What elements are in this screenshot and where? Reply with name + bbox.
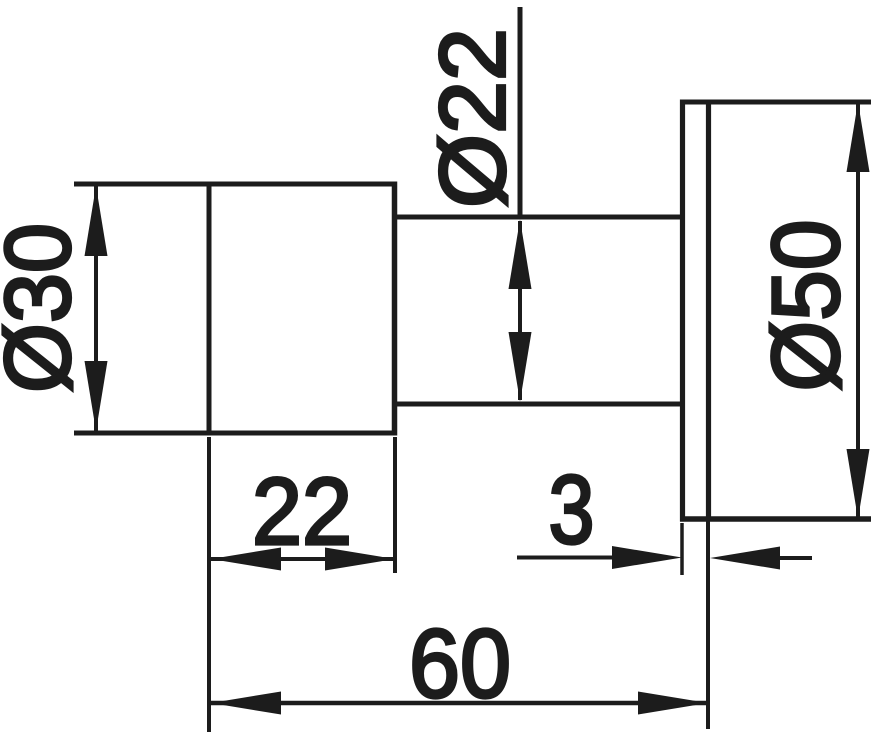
Ø22 dimension line inside neck [518, 221, 522, 400]
neck bottom outline [392, 402, 685, 407]
rose plate right face line [706, 100, 711, 522]
rose plate top outline / Ø50 extension [680, 100, 871, 105]
svg-text:22: 22 [252, 459, 352, 565]
rose plate bottom outline / Ø50 extension [680, 516, 871, 522]
3 dimension left leader [517, 556, 660, 560]
3 dimension right leader [730, 556, 812, 560]
Ø50 dimension line [856, 104, 860, 517]
knob head bottom outline / Ø30 extension [74, 431, 397, 436]
60 arrowhead left [211, 692, 281, 715]
22/60 shared left extension line [207, 437, 211, 732]
60 arrowhead right [638, 692, 708, 715]
plate right extension line for 3 and 60 [706, 521, 710, 729]
3 arrowhead pointing left [710, 547, 780, 570]
60 dimension line [211, 701, 708, 706]
knob head right edge [392, 182, 398, 436]
knob head top outline / Ø30 extension [74, 182, 397, 187]
svg-text:Ø30: Ø30 [0, 223, 90, 393]
Ø30 arrowhead down [85, 361, 108, 431]
svg-text:60: 60 [409, 609, 511, 718]
svg-text:Ø22: Ø22 [421, 28, 525, 208]
3 arrowhead pointing right [612, 546, 682, 569]
svg-text:3: 3 [549, 455, 595, 564]
22 arrowhead right [325, 548, 395, 571]
Ø30 dimension line [94, 186, 98, 431]
Ø22 extension line above neck [518, 7, 523, 218]
svg-text:Ø50: Ø50 [753, 220, 860, 392]
22 arrowhead left [211, 548, 281, 571]
Ø50 arrowhead down [847, 449, 870, 519]
Ø22 arrowhead down [509, 332, 532, 402]
Ø22 arrowhead up [509, 220, 532, 290]
3 left extension line [680, 523, 684, 575]
22 right extension line [393, 437, 397, 573]
Ø50 arrowhead up [847, 102, 870, 172]
22 dimension line [211, 557, 395, 561]
Ø30 arrowhead up [85, 186, 108, 256]
knob head left edge [207, 182, 212, 436]
neck top outline [392, 215, 685, 220]
rose plate left face line [680, 100, 685, 522]
